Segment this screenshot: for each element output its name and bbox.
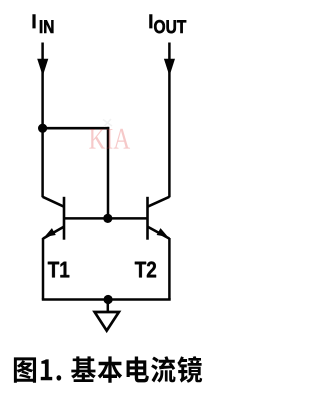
transistor T2 collector slant [147,197,169,207]
label T1 [48,262,69,278]
wire: ground stub [107,300,110,313]
wire: IOUT output vertical (right top) [168,43,171,198]
node: collector-base tie on IIN line [38,124,47,133]
arrowhead: IIN current direction (down) [37,59,48,76]
label I_OUT (I with subscript OUT) [150,15,186,33]
arrowhead: IOUT current direction (down) [164,59,175,76]
wire: vertical base feed down to common-base node [107,127,110,218]
wire: IIN input vertical (left top) [41,43,44,198]
wire: T2 emitter vertical to bottom rail [168,238,171,300]
transistor T1 collector slant [43,197,65,207]
watermark KIA [89,129,130,149]
node: common base junction [103,214,112,223]
transistor T1 base bar [63,197,66,240]
wire: horizontal from IIN node to base-feed corner [43,127,110,130]
caption: 图1. 基本电流镜 (glyph outlines) [14,356,202,383]
arrowhead: T1 emitter NPN arrow (down-left) [44,228,56,237]
wire: T1 emitter vertical to bottom rail [42,238,45,300]
node: bottom rail / ground junction [104,295,113,304]
transistor T1 emitter slant [43,227,64,239]
transistor T2 base bar [146,197,149,240]
label T2 [135,261,156,277]
arrowhead: T2 emitter NPN arrow (down-right) [157,228,169,237]
label I_IN (I with subscript IN) [33,15,54,33]
ground symbol (open triangle) [95,312,119,331]
watermark scribble [103,119,112,127]
transistor T2 emitter slant [148,227,170,239]
wire: common base rail between T1 and T2 [64,217,148,220]
wire: bottom emitter rail [42,298,171,301]
